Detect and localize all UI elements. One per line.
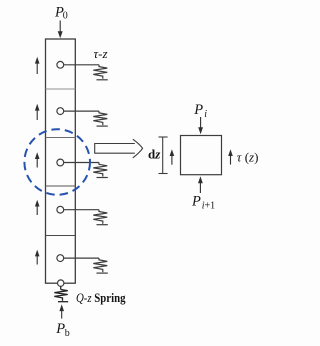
arrow Pi+1 up: [198, 176, 203, 193]
svg-text:b: b: [65, 328, 70, 339]
arrow Pi down: [198, 117, 203, 134]
small up arrow left of square: [170, 149, 175, 165]
open block arrow: [95, 139, 143, 158]
svg-text:τ-z: τ-z: [94, 46, 108, 61]
segment divider 2: [46, 137, 76, 139]
dashed highlight circle: [24, 129, 90, 195]
svg-text:P: P: [55, 321, 65, 337]
segment divider 3: [46, 185, 76, 187]
arrow Pb up: [59, 304, 64, 318]
node 5 circle: [57, 255, 64, 262]
node 1 circle: [57, 61, 64, 68]
segment divider 4: [46, 235, 76, 237]
left arrow 1: [35, 57, 40, 74]
svg-text:P: P: [193, 102, 203, 118]
arrow tau up right of square: [228, 149, 233, 164]
svg-text:dz: dz: [148, 147, 161, 162]
dz dimension bracket: [159, 137, 168, 174]
svg-text:P: P: [191, 194, 201, 210]
left arrow 3: [35, 152, 40, 167]
left arrow 4: [35, 200, 40, 215]
node 2 circle: [57, 108, 64, 115]
segment divider 1: [46, 88, 76, 90]
pile column outline: [46, 39, 76, 283]
tau-z spring 4: [64, 210, 108, 225]
svg-text:τ (z): τ (z): [237, 150, 259, 165]
tau-z spring 2: [64, 111, 108, 126]
svg-text:+1: +1: [205, 201, 216, 212]
node 3 circle: [57, 159, 64, 166]
svg-text:0: 0: [63, 11, 68, 22]
svg-text:i: i: [204, 109, 207, 120]
svg-text:Q-z Spring: Q-z Spring: [76, 290, 126, 305]
left arrow 2: [35, 104, 40, 120]
tau-z spring 5: [64, 258, 108, 273]
detail element square: [181, 136, 222, 175]
tau-z spring 3: [64, 163, 108, 178]
Q-z spring: [54, 286, 68, 301]
bottom node circle: [58, 280, 64, 286]
arrow P0 down: [58, 21, 63, 39]
left arrow 5: [35, 250, 40, 265]
tau-z spring 1: [64, 65, 108, 80]
node 4 circle: [57, 206, 64, 213]
